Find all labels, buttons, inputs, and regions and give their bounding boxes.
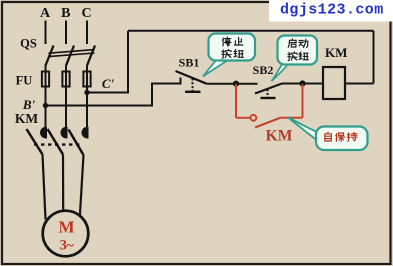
text 保 (hold) [336,133,345,141]
switch QS blade pole B [66,46,74,66]
red wire bottom left [236,117,250,119]
SB2 blade [255,84,282,94]
SB1 blade [176,71,207,84]
red wire down from node1 [235,84,237,118]
wire node1 to SB2 [236,83,258,85]
fuse FU pole C [83,72,90,87]
contactor KM blade C [69,130,84,156]
contactor KM blade B [48,129,64,155]
contactor coil KM [323,67,345,99]
svg-text:M: M [58,218,74,237]
wire to motor C [80,155,84,217]
callout stop button tail [203,60,228,77]
fuse FU pole A [42,72,49,87]
text 动 (start) [299,39,308,47]
phase C lead [86,21,88,45]
svg-text:B: B [61,6,70,21]
KM aux blade [255,118,281,128]
node C' [84,90,89,95]
svg-text:QS: QS [20,37,37,51]
wire C' branch [87,31,128,93]
svg-text:FU: FU [16,73,33,87]
text 止 (stop) [234,37,242,45]
phase A lead [45,21,47,45]
text 自 (self) [325,132,332,141]
text 启 (start) [288,39,296,48]
wire C fuse to contact [86,87,88,129]
stub B through fuse [65,66,67,88]
motor M circle [43,211,89,257]
contactor KM main contact fixed B [61,127,68,139]
wire coil to right drop [345,83,374,85]
node B' [43,103,48,108]
SB2 actuator bar [261,97,276,99]
watermark box [269,0,393,22]
text 停 (stop) [222,37,231,46]
wire node2 to coil [303,83,324,85]
contactor KM blade A [27,129,43,155]
text 按 (button) [222,49,231,58]
wire to motor B [62,155,64,213]
contactor KM main contact fixed A [40,127,47,139]
node 2 (SB2 right) [299,80,305,86]
svg-text:KM: KM [325,45,347,60]
node 1 (SB2 left) [233,81,239,87]
SB1 fixed contact tick [180,78,182,85]
SB1 actuator bar [185,91,201,93]
wire control top [128,30,374,32]
svg-text:KM: KM [15,111,39,126]
stub C through fuse [86,66,88,88]
callout self-hold tail [288,117,317,140]
svg-text:KM: KM [266,128,293,145]
svg-text:C: C [82,6,92,21]
text 持 (hold) [347,133,357,142]
self holding branch (red) [236,84,303,128]
fuse FU pole B [62,72,69,87]
switch QS blade pole A [46,46,54,66]
svg-text:3~: 3~ [60,238,75,254]
text 钮 (button) [234,49,243,57]
QS linkage bar (double line) [49,50,95,54]
svg-text:SB1: SB1 [179,55,200,69]
red wire bottom right [281,117,303,119]
wire A fuse to contact [45,87,47,129]
callout stop button box [209,34,256,61]
wire control right drop [373,31,375,84]
red wire up to node2 [302,84,304,118]
svg-text:B': B' [22,97,36,112]
switch QS blade pole C [87,46,95,66]
text 钮 (button, start callout) [299,52,308,60]
wire SB1 to node1 [207,83,237,85]
svg-text:SB2: SB2 [253,63,274,77]
KM aux fixed contact circle [251,115,257,121]
callout start button tail [272,64,289,81]
wire B' branch [46,84,181,106]
svg-text:dgjs123.com: dgjs123.com [280,2,384,19]
KM linkage dashed [34,143,83,145]
stub A through fuse [45,66,47,88]
svg-text:C': C' [102,76,115,91]
wire B fuse to contact [65,87,67,129]
wire to motor A [43,155,46,220]
wire SB2 to node2 [282,83,303,85]
contactor KM main contact fixed C [82,127,89,139]
SB1 actuator stem [192,79,194,92]
callout self-hold box [316,127,368,151]
callout start button box [278,36,318,65]
callout text: hand-drawn CJK glyphs [222,37,309,61]
phase B lead [65,21,67,45]
SB2 actuator stem [267,89,269,98]
svg-text:A: A [40,6,51,21]
text 按 (button, start callout) [288,52,297,61]
